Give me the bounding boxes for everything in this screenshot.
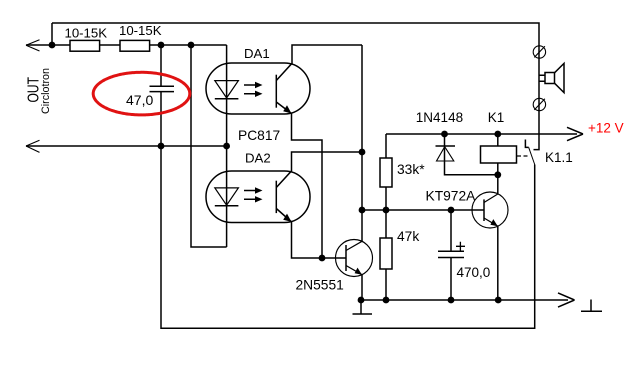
svg-text:PC817: PC817 bbox=[238, 128, 280, 143]
svg-text:KT972A: KT972A bbox=[426, 189, 477, 204]
svg-text:DA1: DA1 bbox=[244, 46, 270, 61]
svg-text:470,0: 470,0 bbox=[457, 265, 491, 280]
svg-text:10-15K: 10-15K bbox=[65, 26, 108, 41]
svg-text:1N4148: 1N4148 bbox=[416, 110, 463, 125]
svg-text:K1: K1 bbox=[488, 110, 505, 125]
svg-text:Circlotron: Circlotron bbox=[40, 68, 52, 114]
svg-text:47k: 47k bbox=[397, 229, 419, 244]
svg-text:K1.1: K1.1 bbox=[545, 150, 573, 165]
svg-text:10-15K: 10-15K bbox=[119, 23, 162, 38]
svg-text:47,0: 47,0 bbox=[126, 92, 153, 108]
svg-text:33k*: 33k* bbox=[397, 162, 425, 177]
svg-text:+12 V: +12 V bbox=[588, 121, 624, 136]
svg-text:2N5551: 2N5551 bbox=[296, 278, 344, 293]
svg-text:DA2: DA2 bbox=[245, 151, 271, 166]
